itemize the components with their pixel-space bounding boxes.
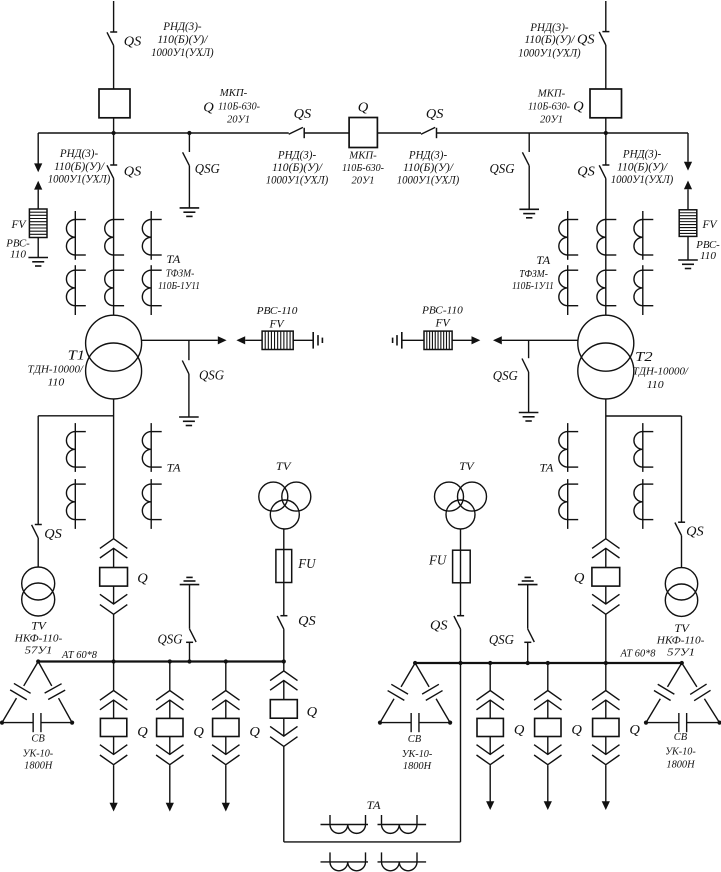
wire QS to breaker (T2) — [605, 45, 607, 89]
svg-text:QS: QS — [426, 106, 444, 121]
arrow down (left arrester feed) — [34, 163, 42, 172]
svg-text:QS: QS — [294, 106, 312, 121]
wire QSG to ground (right bus) — [528, 166, 530, 210]
wire feeder to load arrow (left feeder 3) — [225, 765, 227, 803]
current transformer TA (T2 HV middle) — [606, 219, 617, 221]
wire feeder to load arrow (right feeder 3) — [605, 765, 607, 801]
arrow left (middle arrester left) — [236, 336, 245, 344]
feeder circuit breaker Q (right feeder 1) — [489, 663, 491, 691]
wire QSG to AT bus (left) — [189, 642, 191, 661]
current transformer TA (T1 HV middle) — [114, 219, 125, 221]
svg-text:20У1: 20У1 — [352, 176, 375, 187]
wire arrester to ground (middle left) — [293, 339, 313, 341]
feeder circuit breaker Q (right feeder 3) — [605, 663, 607, 691]
svg-text:QS: QS — [577, 164, 595, 179]
current transformer TA (T2 HV right column) — [642, 211, 644, 260]
ground (middle left arrester) — [312, 332, 314, 349]
svg-text:МКП-: МКП- — [219, 88, 248, 99]
ground (left arrester) — [28, 257, 48, 259]
wire bus to arrester FV (right) — [687, 133, 689, 162]
current transformer TA (bottom row2 group2) — [378, 861, 427, 863]
svg-text:QS: QS — [430, 618, 448, 633]
svg-text:TV: TV — [674, 621, 690, 635]
wire feeder to load arrow (right feeder 2) — [547, 765, 549, 801]
current transformer TA (bottom row1 group2) — [378, 824, 427, 826]
feeder circuit breaker Q (left feeder 2) — [169, 662, 171, 691]
svg-text:110: 110 — [10, 249, 27, 261]
svg-text:ТФЗМ-: ТФЗМ- — [519, 269, 548, 280]
svg-text:Q: Q — [307, 704, 318, 719]
disconnector QS (right edge TV) — [678, 521, 685, 523]
svg-text:Q: Q — [249, 724, 260, 739]
surge arrester FV RVS-110 (left edge) — [29, 209, 47, 238]
node T2 bus junction — [604, 131, 608, 135]
svg-text:FV: FV — [269, 317, 286, 331]
svg-text:Q: Q — [629, 722, 640, 737]
disconnector QS (left TV column) — [280, 615, 287, 617]
wire breaker to AT bus (T1) — [113, 614, 115, 661]
svg-text:СВ: СВ — [31, 733, 45, 745]
svg-text:РНД(3)-: РНД(3)- — [529, 22, 569, 34]
wire 110kV bus segment A — [38, 132, 289, 134]
surge arrester FV RVS-110 (middle left) — [262, 331, 293, 349]
wire AT 60*8 bus (left) — [38, 660, 284, 662]
svg-text:Q: Q — [193, 724, 204, 739]
wire T2 neutral to arrester — [502, 339, 578, 341]
svg-text:1000У1(УХЛ): 1000У1(УХЛ) — [48, 174, 111, 186]
svg-text:110(Б)(У)/: 110(Б)(У)/ — [272, 162, 323, 174]
svg-text:QSG: QSG — [489, 632, 514, 647]
wire bus to QSG (left) — [188, 133, 190, 152]
svg-text:МКП-: МКП- — [537, 89, 566, 100]
svg-text:Q: Q — [358, 99, 369, 114]
svg-text:СВ: СВ — [408, 733, 422, 745]
wire 110kV bus segment B — [304, 132, 349, 134]
svg-text:110(Б)(У)/: 110(Б)(У)/ — [524, 34, 575, 46]
svg-text:FU: FU — [428, 553, 447, 568]
disconnector QS (T1 HV incoming) — [110, 31, 117, 33]
svg-text:РНД(3)-: РНД(3)- — [408, 149, 448, 161]
svg-text:QS: QS — [577, 32, 595, 47]
current transformer TA (T2 HV left column) — [567, 211, 569, 260]
transformer T2 — [578, 315, 634, 371]
svg-text:АТ 60*8: АТ 60*8 — [619, 649, 655, 660]
node QSG-left bus junction — [187, 131, 191, 135]
earthing switch QSG (right bus) — [522, 152, 529, 165]
wire arrester to ground (left) — [37, 238, 39, 258]
node T1 bus junction — [112, 131, 116, 135]
disconnector QS (right TV column) — [457, 615, 464, 617]
wire QS to TV (left edge) — [37, 538, 39, 567]
svg-text:ТА: ТА — [536, 255, 551, 267]
svg-text:20У1: 20У1 — [227, 114, 250, 125]
node AT bus right junctions — [458, 661, 462, 665]
svg-text:РНД(3)-: РНД(3)- — [162, 21, 202, 33]
svg-text:FV: FV — [11, 217, 28, 231]
wire link across bottom — [284, 841, 461, 843]
wire ground to QSG (right LV) — [527, 585, 529, 629]
svg-text:QS: QS — [686, 523, 704, 538]
svg-text:FV: FV — [435, 316, 452, 330]
wire ground to arrester (middle right) — [402, 339, 424, 341]
svg-text:TV: TV — [459, 459, 475, 473]
ground (left LV QSG, inverted) — [180, 584, 200, 586]
earthing switch QSG (right LV bus) — [524, 641, 531, 643]
wire TV to fuse FU (left) — [283, 529, 285, 616]
svg-text:1800Н: 1800Н — [24, 761, 53, 772]
svg-text:FV: FV — [702, 217, 719, 231]
svg-text:НКФ-110-: НКФ-110- — [656, 635, 705, 647]
svg-text:110Б-1У11: 110Б-1У11 — [158, 281, 200, 292]
wire AT 60*8 bus (right) — [415, 662, 682, 664]
wire feeder to load arrow (right feeder 1) — [489, 765, 491, 801]
wire QS to breaker Q — [113, 45, 115, 89]
svg-text:1000У1(УХЛ): 1000У1(УХЛ) — [518, 47, 581, 59]
svg-text:110Б-630-: 110Б-630- — [218, 101, 260, 112]
svg-text:РВС-110: РВС-110 — [256, 305, 298, 317]
arrow up (right arrester) — [684, 181, 692, 190]
current transformer TA (T1 LV left column) — [74, 423, 76, 472]
svg-text:57У1: 57У1 — [25, 645, 53, 657]
svg-text:Q: Q — [514, 722, 525, 737]
svg-text:20У1: 20У1 — [540, 114, 563, 125]
ground (middle right arrester) — [401, 332, 403, 349]
svg-text:110Б-630-: 110Б-630- — [528, 101, 570, 112]
svg-text:110: 110 — [647, 379, 664, 391]
svg-text:РНД(3)-: РНД(3)- — [59, 148, 99, 160]
ground (left bus QSG) — [180, 207, 200, 209]
arrow left (T2 neutral) — [493, 336, 502, 344]
ground (T2 neutral QSG) — [519, 412, 539, 414]
wire TV to fuse FU (right) — [460, 529, 462, 616]
feeder circuit breaker Q (left feeder 1) — [113, 662, 115, 691]
wire QS to TV (right edge) — [681, 536, 683, 568]
svg-text:УК-10-: УК-10- — [402, 749, 433, 760]
svg-text:110: 110 — [48, 377, 65, 389]
wire QS to CT section (T1) — [113, 178, 115, 315]
wire feeder to load arrow (left feeder 1) — [113, 765, 115, 803]
wire bus to arrester FV (left) — [37, 133, 39, 164]
svg-text:ТФЗМ-: ТФЗМ- — [166, 269, 195, 280]
svg-text:TV: TV — [31, 619, 47, 633]
svg-text:QSG: QSG — [158, 632, 183, 647]
wire QSG to ground (left bus) — [188, 166, 190, 208]
ground (right arrester) — [678, 259, 698, 261]
current transformer TA (T1 HV left column) — [74, 211, 76, 260]
current transformer TA (T1 LV right column) — [150, 423, 152, 472]
svg-text:УК-10-: УК-10- — [23, 749, 54, 760]
earthing switch QSG (T1 neutral) — [188, 340, 190, 360]
ground (right bus QSG) — [519, 208, 539, 210]
transformer T1 — [86, 315, 142, 371]
circuit breaker Q (T1 LV, drawout) — [100, 539, 127, 549]
disconnector QS (bus tie right) — [421, 127, 435, 134]
arrow up (left arrester) — [34, 181, 42, 190]
svg-text:МКП-: МКП- — [348, 150, 377, 161]
svg-text:Q: Q — [574, 570, 585, 585]
voltage transformer TV NKF-110 (left edge) — [22, 567, 55, 600]
wire breaker to AT bus (T2) — [605, 614, 607, 663]
circuit breaker Q (bus tie) — [349, 118, 377, 148]
svg-text:110(Б)(У)/: 110(Б)(У)/ — [403, 162, 454, 174]
wire T1 HV supply line — [113, 1, 115, 32]
circuit breaker Q MKP-110 (right) — [590, 89, 622, 118]
wire branch to voltage transformer TV (left edge) — [38, 415, 113, 417]
svg-text:ТДН-10000/: ТДН-10000/ — [633, 366, 689, 378]
svg-text:1000У1(УХЛ): 1000У1(УХЛ) — [397, 175, 460, 187]
svg-text:QSG: QSG — [493, 368, 518, 383]
svg-text:Q: Q — [137, 724, 148, 739]
svg-text:РНД(3)-: РНД(3)- — [622, 149, 662, 161]
svg-text:ТА: ТА — [540, 462, 555, 474]
wire QSG to AT bus (right) — [527, 642, 529, 663]
svg-text:УК-10-: УК-10- — [665, 747, 696, 758]
disconnector QS (T2 HV incoming) — [602, 31, 609, 33]
wire link riser to right AT bus — [460, 663, 462, 842]
wire ground to QSG (left LV) — [189, 585, 191, 629]
wire QS to AT bus (left TV column) — [283, 629, 285, 661]
wire 110kV bus segment D — [437, 132, 689, 134]
circuit breaker Q (T2 LV, drawout) — [592, 539, 619, 549]
svg-text:QS: QS — [124, 33, 142, 48]
svg-text:ТА: ТА — [166, 254, 181, 266]
fuse FU (left) — [276, 550, 292, 583]
wire T1 neutral to arrester — [142, 339, 218, 341]
wire breaker to bus — [113, 118, 115, 133]
svg-text:110(Б)(У)/: 110(Б)(У)/ — [617, 161, 668, 173]
wire T2 HV supply line — [605, 1, 607, 32]
svg-text:110(Б)(У)/: 110(Б)(У)/ — [157, 34, 208, 46]
wire 110kV bus segment C — [377, 132, 421, 134]
svg-text:110: 110 — [700, 250, 717, 262]
earthing switch QSG (left LV bus) — [186, 641, 193, 643]
wire branch to voltage transformer TV (right edge) — [606, 415, 682, 417]
svg-text:QSG: QSG — [490, 161, 515, 176]
fuse FU (right) — [453, 550, 471, 583]
ground (right LV QSG, inverted) — [518, 584, 538, 586]
current transformer TA (bottom row1 group1) — [321, 824, 369, 826]
svg-text:1800Н: 1800Н — [403, 761, 432, 772]
current transformer TA (T1 HV right column) — [150, 211, 152, 260]
voltage transformer TV trefoil (right) — [435, 482, 464, 511]
svg-text:Т2: Т2 — [635, 349, 653, 364]
svg-text:Т1: Т1 — [68, 348, 85, 363]
node AT bus left junctions — [112, 659, 116, 663]
wire T1 LV down to AT bus — [113, 399, 115, 539]
svg-text:QS: QS — [124, 163, 142, 178]
arrow right (middle right arrester) — [472, 336, 481, 344]
svg-text:110(Б)(У)/: 110(Б)(У)/ — [54, 161, 105, 173]
arrow right (T1 neutral) — [218, 336, 227, 344]
svg-text:57У1: 57У1 — [667, 646, 695, 658]
svg-text:РНД(3)-: РНД(3)- — [277, 149, 317, 161]
current transformer TA (T2 LV right column) — [642, 423, 644, 472]
svg-text:1000У1(УХЛ): 1000У1(УХЛ) — [266, 175, 329, 187]
svg-text:QS: QS — [44, 526, 62, 541]
svg-text:FU: FU — [297, 556, 316, 571]
svg-text:QSG: QSG — [195, 161, 220, 176]
disconnector QS (T1 HV, below bus) — [113, 133, 115, 165]
ground (T1 neutral QSG) — [179, 416, 199, 418]
svg-text:1000У1(УХЛ): 1000У1(УХЛ) — [151, 47, 214, 59]
voltage transformer TV NKF-110 (right edge) — [665, 568, 697, 600]
capacitor bank SV UK-10 (right outer) — [667, 663, 681, 687]
disconnector QS (bus tie left) — [289, 127, 303, 134]
earthing switch QSG (T2 neutral) — [528, 340, 530, 358]
svg-text:1000У1(УХЛ): 1000У1(УХЛ) — [611, 174, 674, 186]
wire arrester to ground (right) — [687, 236, 689, 260]
wire QS to AT bus (right TV column) — [460, 629, 462, 663]
capacitor bank SV UK-10 (left) — [24, 662, 38, 686]
surge arrester FV RVS-110 (middle right) — [424, 331, 452, 349]
disconnector QS (left edge TV) — [35, 524, 42, 526]
current transformer TA (bottom row2 group1) — [321, 861, 369, 863]
circuit breaker Q MKP-110 (left) — [99, 89, 130, 118]
svg-text:Q: Q — [203, 100, 214, 115]
earthing switch QSG (left bus) — [183, 152, 190, 165]
feeder circuit breaker Q (right feeder 2) — [547, 663, 549, 691]
disconnector QS (T2 below bus) — [605, 133, 607, 165]
svg-text:TV: TV — [276, 459, 292, 473]
capacitor bank SV UK-10 (right inner) — [401, 663, 415, 687]
svg-text:НКФ-110-: НКФ-110- — [14, 633, 63, 645]
svg-text:ТА: ТА — [367, 800, 382, 812]
wire feeder to load arrow (left feeder 2) — [169, 765, 171, 803]
svg-text:ТА: ТА — [167, 462, 182, 474]
svg-text:110Б-630-: 110Б-630- — [342, 163, 384, 174]
svg-text:110Б-1У11: 110Б-1У11 — [512, 281, 554, 292]
wire link feeder4 down — [283, 747, 285, 842]
svg-text:Q: Q — [571, 722, 582, 737]
voltage transformer TV trefoil (left) — [259, 482, 288, 511]
svg-text:Q: Q — [137, 571, 148, 586]
wire QS to CT section (T2) — [605, 178, 607, 315]
current transformer TA (T2 LV left column) — [567, 423, 569, 472]
feeder circuit breaker Q (left feeder 3) — [225, 662, 227, 691]
svg-text:ТДН-10000/: ТДН-10000/ — [28, 364, 84, 376]
svg-text:Q: Q — [573, 99, 584, 114]
svg-text:QS: QS — [298, 613, 316, 628]
svg-text:СВ: СВ — [674, 731, 688, 743]
feeder circuit breaker Q (left feeder 4 to TA link) — [283, 662, 285, 671]
svg-text:QSG: QSG — [199, 368, 224, 383]
wire T2 LV down to AT bus — [605, 399, 607, 539]
wire breaker to bus (T2) — [605, 118, 607, 133]
surge arrester FV RVS-110 (right edge) — [679, 210, 697, 237]
arrow down (right arrester feed) — [684, 162, 692, 171]
svg-text:1800Н: 1800Н — [666, 760, 695, 771]
svg-text:АТ 60*8: АТ 60*8 — [61, 650, 97, 661]
wire bus to QSG (right) — [528, 133, 530, 152]
